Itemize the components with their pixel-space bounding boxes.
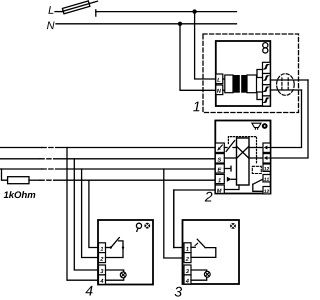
unit 2 right terminal 3 (12): [263, 164, 270, 171]
unit 2 left terminal 4 (1): [215, 174, 224, 183]
unit 1 secondary terminal 2: [263, 74, 271, 85]
wire tee to resistor: [2, 169, 8, 180]
station 4 earpiece icon: [136, 223, 141, 228]
station 3 push button lever: [197, 239, 205, 247]
wire secondary output a: [270, 79, 308, 81]
station 4 terminal 2: [99, 253, 106, 263]
bus line a: [0, 147, 42, 149]
wire L drop to unit 1: [195, 12, 216, 79]
unit 2 left terminal 2 S: [215, 154, 224, 163]
wire N drop to unit 1: [180, 24, 216, 91]
transformer T1 primary winding: [225, 75, 233, 93]
unit 2 internal hook switch lever: [226, 141, 234, 152]
unit 1 secondary terminal 1: [263, 62, 271, 73]
unit 2 speaker icon: [252, 123, 261, 127]
station 3 terminal 4: [184, 275, 191, 284]
bridge terminals 1-2: [257, 70, 263, 78]
wire feeder to station 4 terminal 2: [82, 169, 99, 258]
label 4: [85, 286, 92, 296]
label 2: [205, 192, 213, 202]
terminal L of unit 1: [216, 74, 223, 84]
station 4 lamp icon: [144, 223, 150, 229]
bus line d from resistor: [29, 179, 40, 181]
wire feeder to station 4 terminal 3: [74, 159, 98, 270]
resistor R 1kOhm body: [8, 177, 29, 184]
station 4 lamp: [120, 272, 126, 278]
station 4 lamp wiring: [106, 270, 124, 280]
junction dot on L: [192, 9, 196, 13]
label 1: [193, 102, 199, 112]
bridge terminals 3-4: [257, 92, 263, 100]
unit 2 screw icon: [262, 123, 268, 129]
unit 2 right terminal 1 (arrow in): [263, 143, 270, 152]
connector plug dashed circle: [277, 74, 295, 96]
wire row1 right of block: [249, 147, 263, 149]
bus line c: [0, 168, 42, 170]
node L label: [48, 6, 53, 14]
unit 1 secondary terminal 3: [263, 85, 271, 96]
station 3 terminal 3: [184, 265, 191, 275]
unit 2 amplifier block: [237, 138, 250, 185]
intercom unit 2 body: [215, 121, 270, 194]
station 3 lamp: [204, 271, 210, 277]
station 3 terminal 2: [184, 253, 191, 263]
indoor station 3 body: [183, 220, 240, 284]
unit 1 secondary terminal 4: [263, 96, 271, 106]
transformer T1 core: [233, 75, 240, 93]
wire L lead-in: [55, 11, 62, 13]
station 3 push button wire: [191, 246, 195, 248]
station 3 lamp wiring: [191, 270, 207, 280]
station 4 push button lever: [111, 238, 120, 248]
station 4 terminal 1: [99, 243, 106, 253]
station 3 terminal 1: [184, 243, 191, 253]
wire row2 through block: [224, 157, 236, 159]
bus line b: [0, 158, 40, 160]
wire feeder to station 3 terminal 2: [164, 169, 184, 258]
resistor value label 1kOhm: [4, 191, 36, 198]
wire from plug down to unit 2 right terminal 2: [271, 80, 309, 158]
fuse F1 body: [62, 1, 89, 14]
wire feeder to station 4 terminal 1: [89, 180, 99, 247]
station 4 terminal 4: [99, 275, 106, 285]
unit 2 internal hook switch contact: [224, 147, 227, 149]
unit 2 call triangle: [227, 177, 232, 182]
junction dot on N: [178, 22, 182, 26]
wire feeder to station 3 terminal 1: [173, 190, 175, 248]
unit 2 left terminal 3 E: [215, 164, 224, 173]
unit 2 door release dashed box: [252, 166, 261, 173]
fuse F1 fixed contact tick: [95, 10, 97, 16]
station 3 lamp icon: [230, 223, 236, 229]
unit 2 M wire: [224, 185, 239, 190]
fuse F1 axis: [62, 1, 97, 11]
label 3: [175, 287, 182, 297]
unit 2 left terminal 5 M: [215, 185, 224, 193]
wire primary stubs: [223, 78, 225, 80]
station 4 push button wire: [106, 247, 111, 249]
indoor station 4 body: [98, 220, 153, 285]
transformer unit 1 dashed enclosure: [203, 34, 299, 113]
wire from plug down to unit 2 right terminal 1: [271, 90, 302, 148]
terminal N of unit 1: [216, 85, 223, 95]
wire e to unit 2 terminal 5: [174, 190, 216, 248]
wire N line: [56, 23, 237, 25]
unit 2 mechanical link dotted: [228, 137, 256, 165]
unit 1 screw icon (double circle): [263, 43, 268, 48]
unit 2 door release lever: [253, 179, 263, 184]
unit 2 cross-switch X: [237, 146, 250, 158]
node N label: [47, 22, 55, 30]
unit 2 right terminal 4 (11): [263, 175, 270, 182]
unit 2 E stub with tick: [224, 168, 231, 170]
wire secondary output b: [270, 89, 301, 91]
transformer unit 1 body: [216, 41, 270, 106]
unit 2 right terminal 5 (12): [263, 187, 270, 194]
wire L line: [96, 11, 237, 13]
unit 2 left terminal 1 (arrow): [215, 143, 224, 152]
wire feeder to station 4 terminal 4: [67, 148, 99, 281]
unit 2 right terminal 2 (arrow in): [263, 154, 270, 163]
station 4 terminal 3: [99, 265, 106, 275]
transformer T1 secondary winding: [247, 75, 257, 93]
